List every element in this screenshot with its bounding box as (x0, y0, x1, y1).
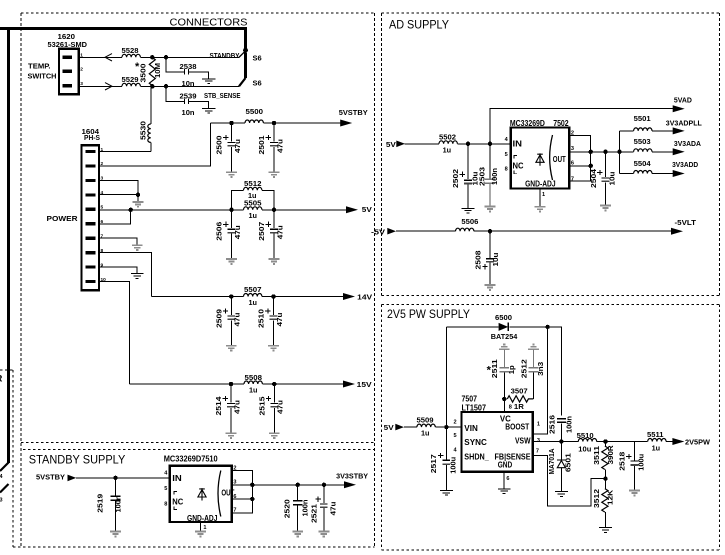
svg-text:47u: 47u (235, 225, 242, 239)
svg-text:10u: 10u (493, 253, 500, 267)
svg-text:5V: 5V (362, 205, 372, 214)
ground (C2504, gray) (600, 206, 611, 211)
wire: pin7 to ground (99, 238, 137, 245)
svg-text:10n: 10n (182, 110, 195, 117)
wire: U7510 output pins tie (232, 471, 345, 513)
capacitor C2501 47u (259, 123, 284, 172)
node junction dot C2519 tap (113, 476, 117, 480)
ground (U7507 GND, black) (498, 489, 511, 494)
svg-text:5: 5 (454, 433, 457, 439)
ground (C2503, gray) (485, 207, 496, 212)
svg-text:1u: 1u (443, 147, 452, 154)
inductor L5500 (245, 109, 263, 123)
wire: 2516 lower lead + VSW rail (533, 423, 648, 441)
svg-text:3: 3 (571, 146, 574, 152)
inductor L5503 (634, 139, 652, 152)
svg-text:5509: 5509 (417, 417, 434, 424)
diode D6500 BAT254 (491, 315, 518, 341)
svg-text:1u: 1u (421, 431, 430, 438)
svg-text:1u: 1u (249, 387, 258, 394)
svg-text:*: * (135, 61, 140, 73)
capacitor C2504 10u (591, 152, 616, 205)
inductor L5529 (122, 77, 141, 87)
wire: 5VSTBY rail (210, 122, 340, 124)
resistor R3500 10M (135, 57, 162, 85)
svg-text:100u: 100u (638, 454, 645, 471)
inductor L5508 1u (244, 375, 262, 395)
svg-text:2: 2 (454, 419, 457, 425)
svg-text:PH-S: PH-S (84, 135, 100, 142)
capacitor C2539 10n (166, 86, 209, 117)
svg-text:IN: IN (172, 473, 182, 483)
svg-text:10n: 10n (182, 81, 195, 88)
svg-text:BAT254: BAT254 (491, 332, 518, 341)
wire: FB/SENSE path (533, 455, 606, 506)
svg-text:2: 2 (80, 66, 83, 72)
node 5V input arrow (AD supply) (386, 140, 405, 149)
node junction dots output tie (589, 150, 622, 168)
ground (C2538, black) (202, 79, 215, 84)
svg-text:2503: 2503 (480, 167, 487, 186)
svg-text:*: * (487, 364, 492, 376)
ground (U7502 GND-ADJ, gray) (535, 207, 546, 212)
ground (C2506, gray) (226, 259, 237, 264)
op-amp U7502 pin numbers (505, 131, 574, 198)
svg-text:2507: 2507 (259, 222, 266, 241)
capacitor C2516 100n (550, 415, 574, 434)
svg-text:POWER: POWER (47, 214, 79, 223)
inductor L5510 10u (577, 433, 597, 454)
op-amp U7510 MC33269D regulator (164, 454, 235, 524)
ground (pins 3/4, gray) (133, 202, 144, 207)
ground (C2518, gray) (629, 491, 640, 496)
svg-text:5: 5 (164, 486, 167, 492)
svg-text:3500: 3500 (141, 63, 148, 82)
node 14V output arrow (343, 293, 372, 302)
ground (pin9, black) (131, 274, 144, 279)
switch S6 lower contact (239, 53, 262, 88)
node junction dot VC (502, 397, 506, 401)
ground (C2515, gray) (269, 433, 280, 438)
svg-text:3V3STBY: 3V3STBY (336, 472, 368, 481)
wire: 5VAD riser and rail (490, 109, 673, 144)
svg-text:1: 1 (203, 525, 206, 531)
wire: -5VLT rail (396, 230, 671, 232)
svg-text:VSW: VSW (515, 436, 531, 446)
inductor L5530 (vertical) (140, 86, 151, 151)
svg-text:2509: 2509 (217, 309, 224, 328)
svg-text:47u: 47u (235, 313, 242, 327)
svg-text:3n3: 3n3 (538, 362, 545, 376)
connector X1604 POWER PH-S (82, 129, 107, 290)
svg-text:-5V: -5V (371, 227, 385, 236)
ground (pin7, gray) (132, 245, 143, 250)
svg-text:2516: 2516 (550, 415, 557, 434)
capacitor C2520 100n (285, 485, 310, 531)
wire: BOOST pin riser (533, 327, 548, 434)
svg-text:2518: 2518 (619, 452, 626, 471)
svg-text:5504: 5504 (634, 161, 651, 168)
wire: boost diode rail (446, 327, 561, 416)
svg-text:5: 5 (505, 152, 508, 158)
ground (C2511 top, gray inverted) (499, 344, 510, 349)
capacitor C2510 47u (259, 297, 284, 346)
svg-text:VIN: VIN (464, 423, 478, 433)
svg-text:2V5PW: 2V5PW (685, 438, 711, 447)
svg-text:2504: 2504 (591, 169, 598, 188)
node junction dot -5V (488, 229, 492, 233)
svg-text:GND-ADJ: GND-ADJ (525, 179, 556, 188)
svg-text:1R: 1R (514, 404, 524, 411)
wire: VIN riser to diode rail (445, 327, 447, 427)
node 3V3ADPLL output arrow (666, 118, 702, 134)
ground (U7510 GND-ADJ, gray) (195, 532, 206, 537)
svg-text:-5VLT: -5VLT (675, 218, 697, 227)
ground (R3512, black) (599, 528, 612, 533)
frame: AD SUPPLY dashed box (382, 13, 720, 295)
svg-text:STB_SENSE: STB_SENSE (204, 91, 241, 100)
resistor R3507 1R (507, 388, 533, 411)
svg-text:2506: 2506 (217, 222, 224, 241)
svg-text:GND-ADJ: GND-ADJ (187, 514, 218, 523)
node 3V3ADA output arrow (673, 139, 702, 155)
node junction dots 14V (229, 294, 276, 298)
resistor R3512 12K (594, 479, 615, 527)
svg-text:10u: 10u (609, 172, 616, 186)
svg-text:14V: 14V (357, 293, 372, 302)
node -5VLT output arrow (671, 218, 696, 235)
svg-text:6500: 6500 (495, 315, 512, 322)
svg-text:1: 1 (542, 192, 545, 198)
capacitor C2514 47u (216, 384, 241, 433)
capacitor C2515 47u (260, 384, 285, 433)
wire: 5V feed to U7507 VIN (404, 426, 462, 428)
svg-text:6: 6 (506, 476, 509, 482)
svg-text:CONNECTORS: CONNECTORS (170, 16, 248, 28)
capacitor C2509 47u (217, 297, 242, 346)
inductor L5501 (634, 116, 652, 131)
switch S6 upper contact (239, 48, 262, 63)
svg-text:5506: 5506 (461, 219, 478, 226)
svg-text:10M: 10M (155, 63, 162, 78)
wire: 3V3ADD branch (620, 173, 673, 175)
wire: thick top bus from left edge to switch S6 (0, 29, 246, 50)
svg-text:1620: 1620 (58, 34, 76, 41)
svg-text:S6: S6 (253, 79, 262, 88)
svg-text:47u: 47u (277, 139, 284, 153)
wire: pin10 riser to 15V rail (99, 282, 130, 384)
ground (C2520, gray) (292, 532, 303, 537)
wire: to 2V5PW arrow (666, 441, 673, 443)
wire: thick left bus down page (7, 28, 10, 464)
capacitor C2502 10u (453, 144, 480, 208)
svg-text:15V: 15V (357, 380, 372, 389)
capacitor C2519 100n (97, 478, 122, 531)
svg-text:100u: 100u (450, 457, 457, 474)
svg-text:47u: 47u (234, 400, 241, 414)
svg-text:GND: GND (498, 460, 513, 470)
node 5V input arrow (2V5 supply) (384, 423, 404, 432)
svg-text:3V3ADA: 3V3ADA (674, 139, 702, 148)
svg-text:LT1507: LT1507 (462, 402, 487, 412)
frame: left off-page dashed box corner (0, 370, 13, 547)
svg-text:8: 8 (509, 405, 512, 411)
svg-text:100n: 100n (116, 496, 123, 513)
capacitor C2512 3n3 (521, 350, 545, 399)
capacitor C2506 47u (217, 210, 242, 259)
svg-text:2500: 2500 (217, 135, 224, 154)
ground (C2517, black) (440, 490, 453, 495)
svg-text:2517: 2517 (431, 454, 438, 473)
wire: 3V3ADA branch (620, 151, 673, 153)
svg-text:47u: 47u (235, 139, 242, 153)
svg-text:6501: 6501 (565, 453, 572, 472)
node 15V output arrow (343, 380, 372, 389)
inductor L5504 (634, 161, 652, 173)
capacitor C2521 47u (312, 485, 338, 531)
node junction dots on STANDBY / STB_SENSE wires (150, 55, 168, 88)
node junction dots 5VSTBY (229, 121, 276, 125)
ground (C2502, black) (462, 208, 475, 213)
inductor L5512 1u (parallel loop) (232, 181, 275, 210)
svg-text:NC: NC (513, 161, 524, 171)
svg-text:5500: 5500 (246, 109, 264, 116)
svg-text:47u: 47u (277, 313, 284, 327)
svg-text:2508: 2508 (476, 250, 483, 269)
wire: pin1 to L5530 (99, 151, 151, 153)
inductor L5505 1u (244, 200, 262, 220)
wire: U7510 pin1 GND stub (200, 522, 202, 531)
inductor L5507 1u (244, 287, 262, 307)
wire: 3V3ADPLL branch (620, 130, 673, 132)
svg-text:S6: S6 (253, 54, 262, 63)
svg-text:2515: 2515 (260, 396, 267, 415)
svg-text:1p: 1p (509, 365, 516, 374)
svg-text:2512: 2512 (521, 359, 528, 378)
node junction dot pin4 (136, 193, 140, 197)
wire: 5V rail (131, 209, 346, 211)
wire: VC pin8 stub (503, 399, 505, 412)
svg-text:1u: 1u (249, 300, 258, 307)
wire: off-page diagonal 4 (0, 463, 9, 472)
svg-text:12K: 12K (608, 490, 615, 505)
svg-text:OUT: OUT (553, 154, 567, 164)
svg-text:STANDBY SUPPLY: STANDBY SUPPLY (29, 452, 126, 466)
node 5V output arrow (346, 205, 372, 214)
wire: U7502 output pins tie (569, 136, 619, 181)
svg-text:3: 3 (0, 498, 3, 504)
node junction dots 15V (229, 382, 277, 386)
ground (D6501, black) (555, 492, 568, 497)
svg-text:2539: 2539 (180, 93, 197, 100)
svg-text:3512: 3512 (594, 489, 601, 508)
ground (C2539, black) (202, 108, 215, 113)
svg-text:1u: 1u (652, 445, 661, 452)
svg-text:100n: 100n (302, 500, 309, 517)
svg-text:100n: 100n (492, 168, 499, 185)
resistor R3511 390R (594, 442, 615, 479)
svg-text:2V5 PW SUPPLY: 2V5 PW SUPPLY (387, 307, 470, 321)
svg-text:SWITCH: SWITCH (28, 71, 57, 80)
node TEMP. SWITCH label (28, 61, 57, 80)
wire: pin9 to ground (99, 267, 137, 273)
node junction dots on IN wire (466, 142, 492, 146)
ground (C2510, gray) (268, 346, 279, 351)
ground (C2507, gray) (269, 259, 280, 264)
node junction dot VIN (444, 425, 448, 429)
wire: STB_SENSE net (switch pin3 to S6) (79, 83, 239, 90)
node 3V3ADD output arrow (672, 160, 699, 177)
svg-text:MC33269D7510: MC33269D7510 (164, 454, 218, 464)
op-amp U7510 pin numbers (164, 465, 236, 531)
diode D6501 MA701A (549, 442, 572, 492)
op-amp U7507 LT1507 (462, 394, 533, 472)
svg-text:47u: 47u (277, 225, 284, 239)
svg-text:2514: 2514 (216, 396, 223, 415)
svg-text:2521: 2521 (312, 504, 319, 523)
frame: 2V5 PW SUPPLY dashed box (382, 305, 720, 551)
wire: 5V feed to U7502 IN (405, 143, 511, 145)
svg-text:BOOST: BOOST (505, 421, 530, 431)
svg-text:R: R (0, 374, 3, 385)
capacitor C2518 100u (619, 442, 645, 491)
svg-text:3: 3 (537, 438, 540, 444)
wire: pins 5+6 tie (99, 210, 131, 224)
svg-text:2502: 2502 (453, 169, 460, 188)
svg-text:5V: 5V (384, 423, 394, 432)
inductor L5509 1u (417, 417, 436, 437)
svg-text:5VSTBY: 5VSTBY (36, 472, 65, 481)
svg-text:2519: 2519 (97, 494, 104, 513)
capacitor C2511 1p (487, 350, 516, 399)
svg-text:5530: 5530 (140, 121, 147, 140)
svg-text:4: 4 (101, 190, 104, 196)
svg-text:5503: 5503 (634, 139, 651, 146)
svg-text:3V3ADPLL: 3V3ADPLL (666, 118, 702, 127)
node junction dots VSW rail (559, 439, 608, 443)
inductor L5506 (456, 219, 479, 231)
wire: STANDBY net (switch pin1 to S6) (79, 54, 239, 61)
svg-text:5VSTBY: 5VSTBY (339, 108, 368, 117)
svg-text:2501: 2501 (259, 135, 266, 154)
svg-text:3V3ADD: 3V3ADD (672, 160, 699, 169)
svg-text:TEMP.: TEMP. (28, 61, 51, 70)
node 5VSTBY input arrow (36, 472, 76, 481)
svg-text:3511: 3511 (594, 446, 601, 465)
node junction dots output tie (250, 483, 326, 502)
wire: pins 3+4 tie to ground (99, 180, 138, 201)
ground (C2500, gray) (226, 172, 237, 177)
svg-text:AD SUPPLY: AD SUPPLY (389, 18, 449, 32)
svg-text:3507: 3507 (511, 388, 528, 395)
wire: U7502 pin1 GND stub (539, 189, 541, 207)
inductor L5502 1u (439, 135, 457, 155)
ground (C2501, gray) (269, 172, 280, 177)
ground (C2509, gray) (226, 346, 237, 351)
node junction dot FB (603, 476, 607, 480)
wire: 3V3 branch trunk (619, 131, 621, 174)
node -5V input arrow (371, 227, 396, 236)
capacitor C2500 47u (217, 123, 242, 172)
frame: STANDBY SUPPLY dashed box top (23, 449, 375, 451)
svg-text:5511: 5511 (647, 432, 664, 439)
svg-text:10u: 10u (578, 447, 591, 454)
svg-text:IN: IN (513, 138, 523, 148)
ground (C2519, gray) (110, 532, 121, 537)
node 3V3STBY output arrow (336, 472, 368, 489)
svg-text:2538: 2538 (180, 64, 197, 71)
capacitor C2538 10n (166, 57, 209, 88)
svg-text:2510: 2510 (259, 309, 266, 328)
svg-text:MA701A: MA701A (549, 449, 556, 475)
capacitor C2517 100u (431, 427, 457, 490)
svg-text:1: 1 (537, 421, 540, 427)
svg-text:5501: 5501 (634, 116, 651, 123)
wire: 14V rail (152, 296, 344, 298)
op-amp U7502 MC33269D regulator (510, 118, 569, 189)
svg-text:STANDBY: STANDBY (210, 51, 240, 60)
capacitor C2503 100n (480, 144, 500, 206)
node 2V5PW output arrow (672, 438, 710, 447)
ground (C2512 top, gray inverted) (528, 344, 539, 349)
wire: 15V rail (130, 383, 344, 385)
node junction dot boost rail (545, 325, 549, 329)
ground (C2521, gray) (319, 532, 330, 537)
wire: off-page diagonal 3 (0, 484, 9, 493)
inductor L5528 (122, 48, 141, 58)
svg-text:1u: 1u (249, 213, 258, 220)
svg-text:390R: 390R (608, 445, 615, 464)
svg-text:7: 7 (536, 449, 539, 455)
svg-text:SYNC: SYNC (464, 437, 487, 447)
svg-text:47u: 47u (278, 400, 285, 414)
svg-text:8: 8 (505, 167, 508, 173)
wire: pin8 riser to 14V rail (99, 253, 152, 297)
svg-text:100n: 100n (566, 416, 573, 433)
node junction dots 5V (229, 208, 276, 212)
svg-text:8: 8 (164, 502, 167, 508)
svg-text:1u: 1u (248, 193, 257, 200)
node junction dot pin5 (129, 208, 133, 212)
connector X1620 53261-SMD temp switch (48, 34, 88, 95)
svg-text:SHDN_: SHDN_ (464, 451, 489, 461)
node 5VSTBY output arrow (339, 108, 368, 127)
svg-text:5VAD: 5VAD (674, 96, 693, 105)
wire: pin2 riser to 5VSTBY rail (99, 123, 210, 166)
capacitor C2508 10u (476, 231, 500, 285)
svg-text:2520: 2520 (285, 499, 292, 518)
svg-text:10u: 10u (473, 172, 480, 186)
inductor L5511 1u (647, 432, 666, 453)
svg-text:47u: 47u (330, 502, 337, 516)
wire: 5VSTBY feed to U7510 IN (76, 477, 170, 479)
ground (C2508, gray) (485, 285, 496, 290)
capacitor C2507 47u (259, 210, 284, 259)
op-amp U7507 pin numbers (454, 405, 541, 482)
svg-text:5V: 5V (386, 140, 396, 149)
wire: U7507 pin6 GND stub (503, 472, 505, 489)
frame: CONNECTORS dashed box (13, 13, 375, 547)
ground (C2514, gray) (226, 433, 237, 438)
node 5VAD output arrow (673, 96, 693, 113)
svg-text:NC: NC (172, 497, 183, 507)
svg-text:2511: 2511 (492, 359, 499, 378)
